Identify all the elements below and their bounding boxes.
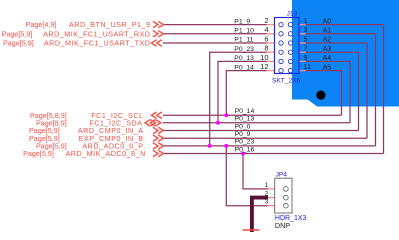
svg-text:ARD_BTN_USR_P1_9: ARD_BTN_USR_P1_9 <box>69 20 151 29</box>
svg-text:6: 6 <box>264 34 268 43</box>
svg-text:7: 7 <box>303 44 307 53</box>
svg-text:JP4: JP4 <box>276 172 288 179</box>
svg-text:P1_10: P1_10 <box>234 28 254 35</box>
svg-text:2: 2 <box>265 191 269 198</box>
svg-text:P1_11: P1_11 <box>234 37 253 44</box>
svg-text:9: 9 <box>303 53 307 62</box>
svg-text:A5: A5 <box>323 64 332 71</box>
svg-text:Page[5,9]: Page[5,9] <box>3 39 34 48</box>
svg-text:1: 1 <box>265 182 269 189</box>
svg-text:3: 3 <box>303 25 307 34</box>
svg-text:SKT_2X6: SKT_2X6 <box>272 78 301 85</box>
svg-text:Page[4,9]: Page[4,9] <box>26 20 57 29</box>
svg-text:ARD_MIK_FC1_USART_TXD: ARD_MIK_FC1_USART_TXD <box>44 39 151 48</box>
svg-text:ARD_MIK_FC1_USART_RXD: ARD_MIK_FC1_USART_RXD <box>43 29 150 38</box>
svg-text:Page[5,9]: Page[5,9] <box>2 29 33 38</box>
svg-text:J13: J13 <box>287 11 298 18</box>
svg-text:P0_16: P0_16 <box>235 146 255 153</box>
svg-text:P0_9: P0_9 <box>235 131 251 138</box>
svg-text:5: 5 <box>303 34 307 43</box>
svg-text:10: 10 <box>260 53 268 62</box>
svg-text:P0_14: P0_14 <box>234 64 254 71</box>
svg-text:P0_14: P0_14 <box>235 108 255 115</box>
svg-text:A2: A2 <box>323 37 332 44</box>
svg-text:8: 8 <box>264 44 268 53</box>
svg-text:2: 2 <box>264 16 268 25</box>
svg-text:A4: A4 <box>323 55 332 62</box>
svg-text:A0: A0 <box>323 18 332 25</box>
svg-text:A1: A1 <box>323 28 332 35</box>
svg-text:1: 1 <box>303 16 307 25</box>
svg-text:4: 4 <box>264 25 268 34</box>
svg-text:P1_9: P1_9 <box>234 18 250 25</box>
svg-text:ARD_MIK_ADC0_8_N: ARD_MIK_ADC0_8_N <box>65 149 145 158</box>
svg-text:P0_13: P0_13 <box>235 116 255 123</box>
svg-text:12: 12 <box>260 62 268 71</box>
svg-text:P0_13: P0_13 <box>234 55 254 62</box>
svg-text:DNP: DNP <box>275 221 290 230</box>
svg-text:3: 3 <box>265 199 269 206</box>
svg-text:P0_23: P0_23 <box>234 46 254 53</box>
svg-text:11: 11 <box>303 62 311 71</box>
svg-text:Page[5,9]: Page[5,9] <box>23 149 54 158</box>
svg-text:P0_23: P0_23 <box>235 139 255 146</box>
svg-text:A3: A3 <box>323 46 332 53</box>
svg-text:P0_0: P0_0 <box>235 123 251 130</box>
